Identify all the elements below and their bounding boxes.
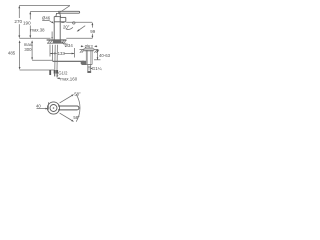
svg-text:40: 40 bbox=[36, 103, 41, 108]
spout bbox=[54, 17, 66, 23]
hose end nipple 1 bbox=[54, 70, 56, 76]
countertop section at faucet bbox=[47, 40, 67, 43]
dimension 99 bbox=[92, 22, 94, 38]
supply hose 1 bbox=[54, 45, 56, 70]
wire extension line deck left y38.2 bbox=[19, 37, 50, 39]
dimension Ø63 bbox=[81, 45, 97, 47]
swing arc bbox=[76, 94, 80, 121]
svg-text:58°: 58° bbox=[73, 115, 80, 120]
svg-text:20°: 20° bbox=[63, 24, 70, 29]
svg-text:Ø34: Ø34 bbox=[65, 43, 74, 48]
dimension max.300 bbox=[31, 40, 52, 60]
lever pivot bbox=[56, 13, 61, 16]
dimension 485 bbox=[19, 40, 54, 70]
lever bar bbox=[59, 11, 80, 13]
G1 1/4 leader bbox=[91, 67, 92, 69]
dimension 133 bbox=[50, 45, 74, 58]
svg-text:99: 99 bbox=[90, 29, 96, 34]
svg-text:max.160: max.160 bbox=[60, 76, 77, 81]
pop-up rod vertical bbox=[52, 45, 54, 61]
drain tailpipe bbox=[87, 65, 91, 73]
faucet body bbox=[54, 17, 60, 40]
basin deck at drain bbox=[80, 49, 101, 59]
svg-text:270: 270 bbox=[14, 19, 22, 24]
dimension 40 bottom bbox=[37, 102, 49, 109]
svg-text:Ø63: Ø63 bbox=[85, 44, 94, 49]
G3/8 leader bbox=[57, 74, 59, 77]
supply hose 2 bbox=[56, 45, 58, 70]
rod end arrow bbox=[54, 53, 56, 56]
wire extension line deck right y38.5 bbox=[66, 37, 92, 39]
dimension 270 bbox=[18, 5, 20, 38]
wire spout extension y22.3 bbox=[66, 21, 92, 23]
dimension 190 bbox=[29, 11, 31, 38]
svg-text:190: 190 bbox=[23, 20, 31, 25]
wire extension line y11.4 bbox=[30, 10, 59, 12]
dimension 40-63 bbox=[97, 49, 99, 59]
max.160 arrow bbox=[57, 77, 60, 79]
svg-text:G1/2: G1/2 bbox=[58, 71, 68, 76]
svg-text:58°: 58° bbox=[74, 91, 81, 96]
svg-text:Ø46: Ø46 bbox=[42, 15, 51, 20]
top view lever bar bbox=[58, 106, 79, 110]
hose end nipple 2 bbox=[56, 70, 58, 77]
svg-text:G1¼: G1¼ bbox=[92, 66, 102, 71]
svg-text:300: 300 bbox=[24, 47, 32, 52]
top view outer circle bbox=[47, 102, 59, 114]
label 99 (on white box) bbox=[90, 28, 95, 34]
svg-text:max.38: max.38 bbox=[30, 27, 45, 32]
hose end left dangle bbox=[49, 70, 51, 75]
20 degree annotation bbox=[66, 22, 85, 32]
svg-text:40-63: 40-63 bbox=[99, 53, 111, 58]
svg-text:133: 133 bbox=[58, 51, 66, 56]
top view center dot bbox=[53, 107, 55, 109]
drain pivot nut bbox=[81, 61, 87, 65]
pop-up rod horizontal bbox=[53, 60, 84, 62]
wire top extension line y5.4 bbox=[19, 4, 70, 6]
swing ray lower bbox=[60, 113, 74, 122]
top view inner circle bbox=[50, 105, 57, 112]
svg-text:485: 485 bbox=[8, 51, 16, 56]
max.38 leader bbox=[51, 32, 53, 40]
leader for Ø46 bbox=[42, 21, 54, 24]
mounting shank nut bbox=[53, 40, 61, 43]
Ø34 leader bbox=[61, 41, 65, 44]
raised lever ghost bbox=[59, 6, 70, 13]
drain body bbox=[86, 50, 92, 64]
swing ray upper bbox=[60, 94, 74, 103]
drain flange bbox=[84, 49, 94, 51]
